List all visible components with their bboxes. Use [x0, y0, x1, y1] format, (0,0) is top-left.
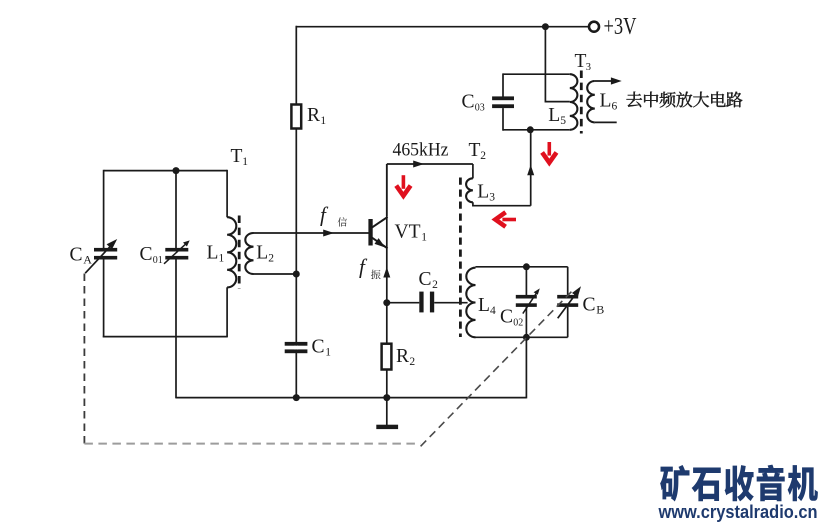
node C02 bottom junction	[523, 334, 530, 341]
node junction top rail to T3 feed	[542, 23, 549, 30]
svg-text:R: R	[396, 346, 409, 367]
wire CA upper lead	[103, 170, 105, 248]
svg-text:2: 2	[268, 253, 274, 265]
arrow CA adjustment	[85, 239, 117, 273]
capacitor C1	[285, 342, 308, 353]
red arrow at L3 feedback	[495, 212, 516, 226]
inductor L6	[587, 81, 595, 122]
svg-text:465kHz: 465kHz	[393, 140, 449, 161]
wire C02 upper lead	[525, 267, 527, 295]
label L5	[548, 105, 566, 127]
label L6	[600, 91, 618, 113]
label CA	[70, 245, 93, 267]
svg-text:A: A	[83, 253, 92, 267]
svg-text:1: 1	[320, 115, 326, 127]
wire L2 to base	[254, 232, 369, 234]
wire C01 to ground rail	[175, 260, 177, 399]
capacitor C03	[492, 96, 514, 108]
svg-text:B: B	[596, 303, 604, 317]
svg-text:1: 1	[242, 156, 248, 168]
svg-text:1: 1	[325, 347, 331, 359]
node L2 return junction	[293, 271, 300, 278]
wire L2 return lead	[254, 273, 297, 275]
svg-text:L: L	[478, 295, 490, 316]
wire collector up	[386, 164, 388, 248]
label f-signal	[320, 203, 347, 227]
node C01 top junction	[173, 167, 180, 174]
svg-text:2: 2	[409, 356, 415, 368]
wire R1 to lower rail	[295, 129, 297, 398]
svg-text:5: 5	[560, 115, 566, 127]
wire ground rail	[176, 397, 526, 399]
svg-text:3: 3	[489, 192, 495, 204]
svg-text:L: L	[600, 91, 612, 112]
label +3V	[604, 14, 638, 40]
svg-text:T: T	[469, 140, 481, 161]
wire C2 left lead	[387, 302, 420, 304]
wire supply to L5 tap	[545, 27, 569, 102]
wire CB upper lead	[567, 267, 569, 295]
svg-text:2: 2	[480, 150, 486, 162]
svg-text:C: C	[70, 245, 83, 266]
label L1	[207, 243, 225, 265]
svg-text:C: C	[312, 337, 325, 358]
svg-text:L: L	[548, 105, 560, 126]
wire CA lower lead	[103, 260, 105, 338]
transistor VT1 base bar	[368, 219, 372, 246]
svg-text:C: C	[583, 295, 596, 316]
wire tank box top	[104, 170, 228, 172]
wire L3 upper lead	[472, 164, 474, 178]
svg-text:T: T	[231, 146, 243, 167]
ground	[376, 425, 398, 429]
svg-text:f: f	[320, 203, 329, 227]
label 465kHz	[393, 140, 449, 161]
wire emitter down	[386, 248, 388, 343]
wire C2 to L4 tap	[434, 302, 467, 304]
wire tank box bottom	[103, 336, 227, 338]
wire ground stub	[386, 398, 388, 425]
capacitor C2	[419, 292, 434, 313]
+3V terminal	[589, 22, 599, 32]
linkage dashed diagonal to CB	[421, 290, 574, 447]
svg-text:3: 3	[586, 62, 591, 73]
arrow 465kHz flow	[413, 161, 424, 168]
svg-text:+3V: +3V	[604, 14, 638, 40]
arrow f-signal	[323, 230, 334, 237]
wire top supply rail	[296, 26, 588, 28]
label C03	[462, 92, 485, 114]
arrow f-osc up	[383, 267, 390, 278]
node C02 top junction	[523, 263, 530, 270]
svg-text:02: 02	[513, 318, 523, 329]
svg-text:2: 2	[432, 279, 438, 291]
red arrow at L5 junction	[542, 142, 556, 163]
label R1	[307, 105, 326, 127]
svg-text:1: 1	[219, 253, 225, 265]
inductor L5	[570, 74, 578, 130]
svg-text:L: L	[207, 243, 219, 264]
red arrow at VT1 collector	[396, 175, 410, 196]
wire L6 output lead	[595, 80, 612, 82]
arrow C01 trimmer	[164, 240, 190, 263]
svg-text:L: L	[256, 243, 268, 264]
label f-osc	[359, 255, 381, 280]
wire collector to L3	[387, 163, 473, 165]
label C2	[419, 269, 439, 291]
arrow to IF amplifier	[611, 77, 622, 84]
node R1C1 ground junction	[293, 394, 300, 401]
trimmer capacitor C01	[165, 248, 188, 260]
svg-text:T: T	[575, 51, 587, 72]
label C01	[140, 244, 163, 266]
label CB	[583, 295, 605, 317]
resistor R1	[291, 105, 301, 129]
label T3	[575, 51, 592, 73]
inductor L1	[227, 217, 236, 287]
wire T3 box top	[503, 73, 570, 75]
label C1	[312, 337, 332, 359]
svg-text:R: R	[307, 105, 320, 126]
inductor L3	[466, 178, 473, 202]
variable capacitor CB	[557, 295, 578, 307]
resistor R2	[382, 344, 392, 370]
arrow CB adjustment	[558, 286, 581, 318]
inductor L4	[466, 268, 475, 338]
label L2	[256, 243, 274, 265]
label VT1	[395, 222, 428, 244]
node L5 bottom junction	[527, 126, 534, 133]
arrow current up	[527, 165, 534, 176]
label T2	[469, 140, 487, 162]
transistor VT1 emitter lead	[372, 237, 388, 248]
svg-text:www.crystalradio.cn: www.crystalradio.cn	[658, 501, 818, 522]
svg-text:4: 4	[490, 305, 496, 317]
inductor L2	[245, 233, 253, 274]
svg-text:C: C	[419, 269, 432, 290]
node R2 ground junction	[383, 394, 390, 401]
node emitter C2 junction	[383, 299, 390, 306]
trimmer capacitor C02	[516, 295, 537, 307]
linkage dashed horizontal	[84, 443, 420, 445]
linkage CA dashed vertical	[83, 274, 85, 444]
watermark crystalradio logo	[660, 465, 818, 502]
wire C02 lower lead	[525, 307, 527, 337]
variable capacitor CA	[94, 248, 117, 260]
arrow C02 trimmer	[523, 288, 540, 313]
svg-text:03: 03	[475, 103, 485, 114]
core T3	[580, 71, 583, 134]
core T2	[459, 178, 462, 338]
wire tank to ground rail	[525, 337, 527, 398]
svg-text:6: 6	[612, 101, 618, 113]
svg-text:f: f	[359, 255, 368, 279]
wire rail to R1	[295, 26, 297, 105]
core T1	[238, 216, 241, 289]
svg-text:1: 1	[421, 232, 427, 244]
wire R2 to rail	[386, 370, 388, 398]
wire CB lower lead	[567, 307, 569, 337]
wire L4 box top	[476, 266, 568, 268]
watermark url	[658, 501, 818, 522]
label to-IF-amplifier text	[626, 92, 742, 108]
label C02	[500, 307, 523, 329]
svg-text:01: 01	[153, 255, 163, 266]
transistor VT1 collector lead	[372, 217, 388, 228]
wire L1 upper lead	[226, 170, 228, 218]
wire T3 box bottom	[503, 129, 570, 131]
wire C03 upper lead	[502, 73, 504, 96]
label T1	[231, 146, 249, 168]
label R2	[396, 346, 415, 368]
svg-text:VT: VT	[395, 222, 421, 243]
wire C01 upper lead	[175, 171, 177, 249]
svg-text:C: C	[140, 244, 153, 265]
svg-text:C: C	[462, 92, 475, 113]
wire L4 box bottom	[476, 336, 568, 338]
svg-text:C: C	[500, 307, 513, 328]
label L3	[477, 182, 495, 204]
label L4	[478, 295, 496, 317]
wire L3 lower lead	[473, 202, 531, 206]
wire L1 lower lead	[226, 287, 228, 337]
wire C03 lower lead	[502, 108, 504, 131]
wire L6 return lead	[595, 121, 617, 123]
wire L3 to L5 junction	[530, 130, 532, 206]
svg-text:L: L	[477, 182, 489, 203]
